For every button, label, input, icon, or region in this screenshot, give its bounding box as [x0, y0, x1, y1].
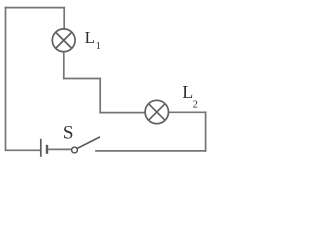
wire jog vertical down: [99, 79, 101, 113]
wire from L2 to right corner: [168, 111, 205, 113]
battery cell: short plate: [46, 145, 48, 154]
wire below L1: [63, 52, 65, 79]
svg-text:L: L: [85, 28, 95, 47]
wire top horizontal: [6, 7, 65, 9]
wire into L2 from left: [100, 112, 145, 114]
lamp L1: [52, 29, 75, 52]
battery cell: long plate: [40, 139, 42, 157]
svg-text:2: 2: [193, 100, 198, 111]
wire bottom right to switch: [96, 150, 206, 152]
lamp L2: [145, 100, 168, 123]
switch S contact circle: [72, 147, 78, 153]
wire top-right vertical into L1: [63, 8, 65, 29]
switch S blade: [77, 137, 100, 149]
svg-text:S: S: [63, 123, 74, 144]
svg-text:1: 1: [96, 41, 101, 52]
wire bottom-left to battery: [6, 149, 41, 151]
wire left vertical: [5, 8, 7, 151]
wire middle horizontal jog: [64, 78, 100, 80]
wire battery to switch: [48, 148, 71, 150]
wire right vertical: [205, 112, 207, 151]
